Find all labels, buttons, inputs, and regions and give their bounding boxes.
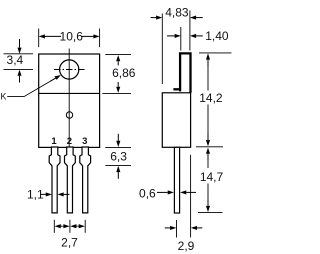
svg-text:2,9: 2,9 xyxy=(178,239,195,253)
svg-text:1,40: 1,40 xyxy=(205,29,229,43)
svg-text:2,7: 2,7 xyxy=(61,235,78,249)
svg-text:0,6: 0,6 xyxy=(139,187,156,201)
svg-text:1: 1 xyxy=(51,136,57,147)
svg-text:2: 2 xyxy=(67,136,72,147)
svg-text:10,6: 10,6 xyxy=(60,29,84,43)
svg-text:3,4: 3,4 xyxy=(7,53,24,67)
svg-text:14,2: 14,2 xyxy=(199,91,223,105)
svg-text:4,83: 4,83 xyxy=(165,6,189,20)
svg-text:K: K xyxy=(0,91,6,101)
svg-text:14,7: 14,7 xyxy=(200,170,224,184)
svg-text:1,1: 1,1 xyxy=(27,187,44,201)
svg-text:6,86: 6,86 xyxy=(112,66,136,80)
svg-text:6,3: 6,3 xyxy=(110,150,127,164)
svg-text:3: 3 xyxy=(82,136,87,147)
